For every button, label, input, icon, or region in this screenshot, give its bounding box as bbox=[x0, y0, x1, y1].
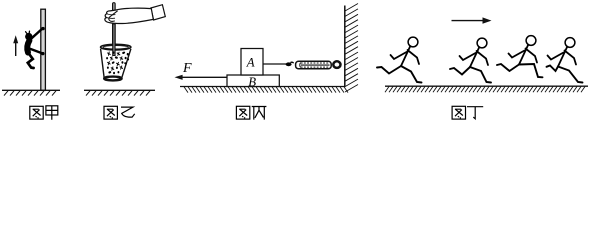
ring at wall bbox=[333, 61, 340, 68]
label tu-jia bbox=[30, 106, 58, 120]
rope A to hook bbox=[263, 63, 286, 65]
label tu-yi bbox=[104, 106, 135, 119]
hook bbox=[286, 62, 292, 66]
ground 1 bbox=[2, 90, 60, 95]
ground 2 bbox=[84, 90, 155, 95]
spring scale body bbox=[296, 61, 332, 69]
force arrow F bbox=[175, 75, 228, 80]
pearls bbox=[106, 51, 129, 74]
rod/straw bbox=[113, 3, 116, 53]
runner 1 bbox=[377, 37, 422, 82]
block B bbox=[227, 75, 279, 87]
block A bbox=[241, 49, 263, 76]
pole bbox=[41, 9, 46, 90]
hand bbox=[105, 5, 165, 24]
label tu-ding bbox=[452, 106, 483, 119]
wall bbox=[344, 6, 346, 87]
label tu-bing bbox=[236, 106, 266, 119]
ground 3 bbox=[180, 86, 345, 88]
up arrow bbox=[13, 35, 18, 56]
svg-text:B: B bbox=[248, 75, 256, 89]
climber bbox=[25, 27, 45, 68]
svg-text:F: F bbox=[182, 61, 192, 76]
arrow bbox=[452, 17, 492, 23]
svg-text:A: A bbox=[246, 55, 255, 69]
rod inside cup bbox=[113, 24, 115, 56]
runner 4 bbox=[547, 38, 583, 83]
runner 3 bbox=[497, 36, 543, 78]
ground 4 bbox=[385, 85, 588, 87]
cup bbox=[101, 44, 131, 80]
runner 2 bbox=[450, 38, 491, 82]
